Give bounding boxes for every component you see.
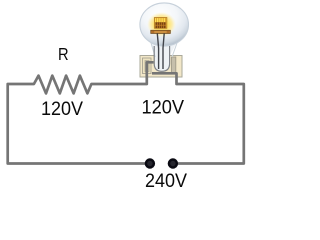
svg-text:R: R bbox=[58, 44, 69, 64]
svg-text:120V: 120V bbox=[41, 99, 83, 120]
svg-text:120V: 120V bbox=[142, 96, 185, 118]
svg-text:240V: 240V bbox=[145, 171, 187, 192]
